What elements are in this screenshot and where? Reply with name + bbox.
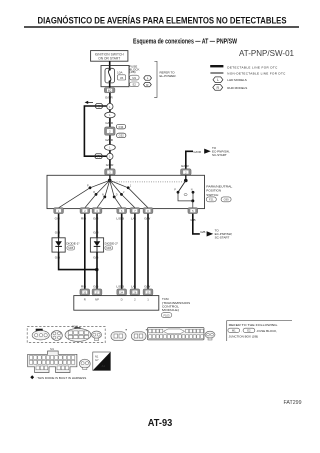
svg-text:L/G: L/G <box>131 284 137 288</box>
line D to terminal 4 <box>114 197 122 208</box>
svg-text:N: N <box>102 194 104 197</box>
svg-text:F33: F33 <box>119 125 124 129</box>
svg-text:G/OR: G/OR <box>106 163 115 167</box>
in-line connector circle 2 <box>107 153 113 159</box>
connector face F22 <box>51 331 62 341</box>
contact R <box>95 193 98 196</box>
right contact P <box>177 191 180 194</box>
fan line common to P <box>90 180 110 187</box>
connector face M65 <box>111 330 127 341</box>
svg-text:DIODE-2*: DIODE-2* <box>105 242 119 246</box>
svg-text:F21: F21 <box>209 198 214 202</box>
terminal 1 bottom <box>54 208 64 214</box>
diode 1 ref oval <box>67 246 75 250</box>
svg-text:L/G: L/G <box>131 217 137 221</box>
svg-text:L: L <box>217 78 219 82</box>
svg-text:FAT299: FAT299 <box>284 400 302 406</box>
hexagon tag R on lower branch <box>94 154 103 159</box>
wire t2 to TCM R/B <box>84 214 86 289</box>
connector ref oval E2 <box>130 82 140 87</box>
J/B output terminal <box>104 88 115 93</box>
wire t6 to TCM <box>147 214 149 289</box>
diode 2 <box>90 238 103 252</box>
svg-text:A1: A1 <box>102 364 106 368</box>
terminal 2 bottom <box>80 208 90 214</box>
svg-text:G/R: G/R <box>93 230 99 234</box>
svg-text:G/R: G/R <box>55 217 61 221</box>
fuse number box <box>118 75 126 80</box>
svg-text:L/G/B: L/G/B <box>116 284 124 288</box>
diode 1 <box>52 238 65 252</box>
svg-text:MODULE): MODULE) <box>162 308 179 312</box>
svg-text:LHD MODELS: LHD MODELS <box>227 78 247 82</box>
wire diode2 down <box>96 252 98 289</box>
TCM terminal D <box>117 289 127 295</box>
svg-text:L/G/B: L/G/B <box>116 217 124 221</box>
svg-text:-FUSE BLOCK,: -FUSE BLOCK, <box>256 329 277 333</box>
svg-text:M1: M1 <box>50 347 54 351</box>
contact D <box>113 196 116 199</box>
svg-text:G/OR: G/OR <box>105 121 114 125</box>
main wire G/OR down to PNP switch <box>109 93 111 169</box>
terminal 7 bottom right <box>188 208 198 214</box>
footnote diode built in harness <box>30 375 34 379</box>
connector face F103 TCM <box>148 328 205 340</box>
svg-text:G/OR: G/OR <box>105 138 114 142</box>
fan line common to 2 <box>110 180 122 194</box>
junction node diodes <box>95 268 98 271</box>
svg-text:R: R <box>146 83 149 87</box>
fan line common to N <box>105 180 110 197</box>
svg-text:G/OR: G/OR <box>193 150 202 154</box>
connector face small right <box>205 331 215 340</box>
connector face M66 <box>131 330 147 341</box>
svg-text:N: N <box>191 189 193 192</box>
junction node <box>191 199 194 202</box>
svg-text:EL-POWER.: EL-POWER. <box>160 74 177 78</box>
PNP switch top terminal 3 <box>105 169 116 175</box>
bracket refer to el-power <box>154 61 157 97</box>
title rule <box>24 26 299 28</box>
fan line common to 1 <box>110 180 129 187</box>
right branch to EC-PNP/SW from switch <box>186 151 193 175</box>
right contact N <box>192 191 195 194</box>
svg-text:GY: GY <box>95 358 99 362</box>
legend LHD models tag <box>213 77 223 83</box>
svg-text:DIODE-1*: DIODE-1* <box>66 242 80 246</box>
wire t3 to diode 2 <box>96 214 98 238</box>
diode 2 ref oval <box>105 246 113 250</box>
arrow to EC-PNP/SW bottom <box>207 231 214 236</box>
legend thin line swatch <box>210 72 223 74</box>
wire through fuse block <box>109 66 111 89</box>
svg-text:JUNCTION BOX (J/B): JUNCTION BOX (J/B) <box>229 335 259 339</box>
wire N contact down <box>192 192 194 201</box>
arrow to EC-PNP/SW <box>204 149 211 154</box>
wire t4 to TCM <box>121 214 123 289</box>
svg-text:6Q: 6Q <box>108 89 111 93</box>
svg-text:G/R: G/R <box>55 230 61 234</box>
fan line common to R <box>96 180 110 194</box>
in-line connector circle E104 <box>107 103 113 109</box>
connector face E2 round <box>79 359 90 369</box>
branch wire RHD top <box>84 106 107 156</box>
wire t1 to diode 1 <box>58 214 60 238</box>
TCM terminal 2 <box>130 289 140 295</box>
connector face M1 fuse block <box>28 347 77 373</box>
line R to terminal 2 <box>85 194 96 207</box>
connector face F21 <box>32 329 49 340</box>
wire junction to terminal 5 <box>192 201 194 208</box>
svg-text:NP: NP <box>95 298 99 302</box>
svg-text:,: , <box>241 329 242 333</box>
hexagon tag L <box>144 76 152 80</box>
svg-text:G52: G52 <box>119 134 125 138</box>
svg-text:F103: F103 <box>164 313 170 317</box>
svg-text:REFER TO THE FOLLOWING.: REFER TO THE FOLLOWING. <box>229 323 279 327</box>
TCM ref oval F103 <box>161 313 172 318</box>
connector face F24 <box>92 331 102 340</box>
terminal 5 bottom <box>130 208 140 214</box>
fuse 10A <box>105 68 115 83</box>
ref oval M1 footer <box>228 328 240 332</box>
line 2 to terminal 5 <box>122 194 135 207</box>
svg-text:L: L <box>147 76 149 80</box>
svg-text:: THIS DIODE IS BUILT IN HARNE: : THIS DIODE IS BUILT IN HARNESS <box>36 376 87 380</box>
line 1 to terminal 6 <box>128 188 148 208</box>
svg-text:R/B: R/B <box>81 284 86 288</box>
svg-text:R: R <box>216 86 219 90</box>
svg-text:D: D <box>121 298 123 302</box>
dashed connector group box <box>27 327 105 343</box>
TCM terminal R <box>80 289 90 295</box>
svg-text:Esquema de conexiones — AT — P: Esquema de conexiones — AT — PNP/SW <box>133 39 237 46</box>
dotted link line <box>112 181 184 183</box>
wire t7 to EC-PNP/SW <box>193 214 200 234</box>
svg-text:ON OR START: ON OR START <box>98 57 120 61</box>
svg-text:AT-93: AT-93 <box>148 418 173 429</box>
hexagon tag M90 R <box>117 133 126 138</box>
svg-text:SC-START: SC-START <box>212 153 227 157</box>
terminal 4 bottom <box>117 208 127 214</box>
svg-text:E2: E2 <box>133 83 137 87</box>
wire diode1 to junction <box>59 252 97 270</box>
svg-text:G/R: G/R <box>93 217 99 221</box>
fuse block box <box>101 66 129 87</box>
in-line connector ellipse <box>105 112 115 118</box>
harness connector M70 <box>105 127 116 135</box>
hexagon tag R on top branch <box>95 104 104 109</box>
connector ref oval M1 <box>130 75 140 80</box>
svg-text:R: R <box>84 298 86 302</box>
line P to terminal 1 <box>59 188 90 208</box>
contact 2 <box>120 193 123 196</box>
contact N <box>103 196 106 199</box>
TCM box <box>74 296 159 311</box>
svg-text:G/OR: G/OR <box>181 164 190 168</box>
wire t5 to TCM <box>134 214 136 289</box>
svg-text:RHD MODELS: RHD MODELS <box>227 86 247 90</box>
svg-text:36: 36 <box>120 76 124 80</box>
svg-text:(J/B): (J/B) <box>129 70 135 74</box>
fan line common to D <box>110 180 115 197</box>
svg-text:SWITCH: SWITCH <box>206 193 218 197</box>
svg-text:SC-START: SC-START <box>215 236 230 240</box>
svg-text:DIAGNÓSTICO DE AVERÍAS PARA EL: DIAGNÓSTICO DE AVERÍAS PARA ELEMENTOS NO… <box>38 15 287 26</box>
legend thick line swatch <box>210 65 223 67</box>
diode code square <box>93 352 111 370</box>
wire into right node <box>185 175 187 180</box>
svg-text:G/B: G/B <box>200 230 205 234</box>
right switch arm <box>178 181 186 193</box>
contact P <box>89 186 92 189</box>
ignition switch box <box>91 51 128 62</box>
legend RHD models tag <box>213 85 223 91</box>
svg-text:R: R <box>93 191 95 194</box>
arrow preceding page <box>88 101 93 103</box>
wire P contact down and right <box>178 192 193 201</box>
svg-text:NON-DETECTABLE LINE FOR DTC: NON-DETECTABLE LINE FOR DTC <box>227 71 286 75</box>
svg-text:N1: N1 <box>95 354 99 358</box>
svg-text:E2: E2 <box>247 329 251 333</box>
terminal 3 bottom <box>92 208 102 214</box>
in-line connector ellipse 2 <box>105 145 116 151</box>
connector ref oval F21 <box>206 197 216 202</box>
terminal 6 bottom <box>143 208 153 214</box>
svg-text:G/B: G/B <box>93 284 98 288</box>
refer block separator lines <box>227 321 292 341</box>
TCM terminal NP <box>92 289 102 295</box>
svg-text:M66: M66 <box>106 247 111 250</box>
hexagon tag R <box>144 82 152 86</box>
svg-text:M1: M1 <box>132 76 136 80</box>
svg-text:M65: M65 <box>68 247 73 250</box>
contact 1 <box>127 186 130 189</box>
svg-text:10A: 10A <box>117 71 123 75</box>
common node <box>108 179 112 183</box>
connector face M106 <box>65 326 91 342</box>
hexagon tag M70 L <box>116 124 125 129</box>
ref oval E2 footer <box>243 328 255 332</box>
svg-text:AT-PNP/SW-01: AT-PNP/SW-01 <box>239 49 295 58</box>
svg-text:G/W: G/W <box>144 284 150 288</box>
svg-text:G99: G99 <box>224 198 229 202</box>
pivot mark <box>184 194 187 196</box>
TCM terminal 1 <box>143 289 153 295</box>
line N to terminal 3 <box>97 197 105 208</box>
park/neutral position switch box <box>47 175 205 208</box>
svg-text:D: D <box>116 194 118 197</box>
right common node <box>184 179 188 183</box>
PNP switch top terminal 2 <box>181 169 192 175</box>
wire into common node <box>109 175 111 180</box>
connector ref oval G99 <box>221 197 231 202</box>
wire ignition to fuse block <box>109 61 111 69</box>
svg-text:DETECTABLE LINE FOR DTC: DETECTABLE LINE FOR DTC <box>227 65 278 69</box>
svg-text:M1: M1 <box>232 329 236 333</box>
